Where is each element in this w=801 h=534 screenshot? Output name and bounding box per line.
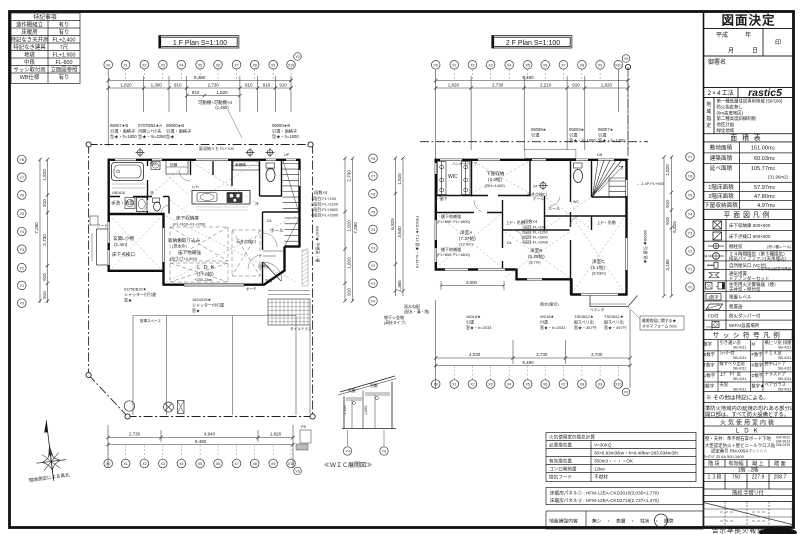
svg-text:(FL+650~FL+1800): (FL+650~FL+1800) [437,253,471,257]
1F main toilet [266,163,275,168]
svg-text:駐車スペース: 駐車スペース [140,318,162,323]
svg-text:準防火地域内の延焼の恐れある部分の: 準防火地域内の延焼の恐れある部分の [705,404,795,412]
svg-text:(31.96m2): (31.96m2) [768,175,789,180]
bathtub [112,163,144,181]
svg-text:Y7: Y7 [371,175,375,179]
svg-text:1,365: 1,365 [397,280,402,292]
legend symbol: smoke alarm [706,283,713,290]
svg-text:立面図参照: 立面図参照 [51,66,79,74]
svg-text:Y7: Y7 [688,156,692,160]
2F plan title box [494,37,571,46]
svg-text:造作棚組立: 造作棚組立 [16,21,44,29]
2F grid bubbles bottom [431,380,440,389]
svg-text:910: 910 [572,83,580,88]
svg-text:FL+2,400: FL+2,400 [53,38,76,44]
svg-text:1階床面積: 1階床面積 [708,183,734,191]
svg-text:タイルテラス: タイルテラス [290,326,312,331]
svg-text:06008★ 引違 窓★: 06008★ 引違 窓★ [643,230,649,263]
svg-text:年: 年 [745,31,751,39]
svg-text:ｷｯﾁﾝ: ｷｯﾁﾝ [192,184,199,189]
svg-text:1,300: 1,300 [151,83,163,88]
WIC elevation sketch [338,376,396,429]
svg-text:0375DB20★: 0375DB20★ [124,287,147,292]
svg-text:Y3: Y3 [20,248,24,252]
svg-text:階段:手摺リ付: 階段:手摺リ付 [732,489,763,496]
svg-text:UB1616: UB1616 [112,191,125,195]
1F interior walls [108,159,300,284]
svg-text:型★・h=1800: 型★・h=1800 [110,133,137,139]
svg-text:FL+1,900: FL+1,900 [53,53,76,59]
svg-text:X6: X6 [216,63,220,67]
svg-text:X8: X8 [252,462,256,466]
1F grid bubbles top [104,60,113,69]
svg-text:型★・m=2250: 型★・m=2250 [138,133,166,139]
understairs hall treads [285,218,300,247]
svg-text:TS03611★: TS03611★ [574,314,594,319]
svg-text:2,730: 2,730 [591,352,603,357]
svg-text:X5: X5 [198,462,202,466]
svg-text:1,820: 1,820 [216,90,228,95]
logo row 2x4 / rastic5 [737,88,739,98]
svg-text:玄関: 玄関 [265,278,273,283]
svg-text:(1,480): (1,480) [215,105,229,110]
svg-text:06000★B: 06000★B [166,123,184,128]
svg-text:Y2: Y2 [20,266,24,270]
svg-text:X1: X1 [123,462,127,466]
svg-text:Y3: Y3 [371,247,375,251]
svg-text:X1: X1 [123,63,127,67]
svg-text:定: 定 [706,122,711,129]
svg-text:2,730: 2,730 [536,352,548,357]
svg-text:X10: X10 [288,63,294,67]
2F room labels [437,170,665,276]
svg-text:9,490: 9,490 [522,360,534,365]
svg-text:床下収納庫 600×600: 床下収納庫 600×600 [729,222,771,229]
svg-text:7,280: 7,280 [353,222,358,234]
svg-text:1,820: 1,820 [601,83,613,88]
ventilation calc table [546,433,696,482]
svg-text:227.9: 227.9 [752,475,765,481]
svg-text:PS: PS [301,425,307,429]
svg-text:F数字: F数字 [752,351,763,358]
svg-text:サッシ符号凡例: サッシ符号凡例 [713,331,784,340]
svg-text:47.80m2: 47.80m2 [754,194,776,200]
svg-text:2,210: 2,210 [540,83,552,88]
svg-text:9,490: 9,490 [522,75,534,80]
svg-text:(高枝タイプ): (高枝タイプ) [384,320,406,325]
svg-text:雨水勾配: 雨水勾配 [404,303,420,309]
svg-text:X1: X1 [452,383,456,387]
svg-text:2,730: 2,730 [208,83,220,88]
kitchen counter [192,191,250,205]
svg-text:910: 910 [263,83,271,88]
1F window openings (white gaps with thin lines) [109,160,300,285]
svg-text:Y6: Y6 [688,175,692,179]
svg-text:ドアアンダーカット: ドアアンダーカット [729,275,769,282]
svg-text:(1.4m): (1.4m) [114,242,128,247]
svg-text:物干シ金物: 物干シ金物 [384,314,404,320]
svg-text:9,490: 9,490 [194,75,206,80]
entrance porch [90,216,108,265]
svg-text:喫置レベル: 喫置レベル [729,294,752,301]
svg-text:(FL+100~FL+200): (FL+100~FL+200) [173,222,206,227]
svg-text:有り: 有り [59,21,70,29]
washstand [137,198,148,212]
svg-text:X6: X6 [543,63,547,67]
svg-text:洋室C: 洋室C [592,258,605,265]
2F grid bubbles right [686,153,695,162]
svg-text:910: 910 [42,273,47,281]
svg-text:06003★: 06003★ [569,127,585,132]
2F stairs [593,160,627,197]
date/stamp box [762,29,764,57]
spec table top-left [11,13,80,84]
svg-text:窓★・367ﾘﾓ: 窓★・367ﾘﾓ [574,324,597,330]
misc dashed clutter kitchen/hall [112,162,258,268]
dimension ticks [38,79,673,446]
2F right dimensions [664,157,672,296]
svg-text:2,730: 2,730 [129,432,141,437]
svg-text:Y0: Y0 [688,286,692,290]
svg-text:910: 910 [665,217,670,225]
svg-text:換気フード: 換気フード [549,473,572,480]
svg-text:縦スベリ出: 縦スベリ出 [574,319,594,325]
2F grid bubbles top [431,61,440,70]
svg-text:UP: UP [284,153,290,157]
svg-text:床暖房パネル② : HFM-12EA-CKD2715(2,7: 床暖房パネル② : HFM-12EA-CKD2715(2,727×1,470) [550,497,659,504]
svg-text:3,640: 3,640 [397,226,402,238]
svg-text:Y7: Y7 [20,176,24,180]
svg-text:4段目:FL+2000: 4段目:FL+2000 [311,212,339,218]
svg-text:上P・吊棚: 上P・吊棚 [597,219,616,225]
svg-text:X9: X9 [271,462,275,466]
svg-text:吊押入: 吊押入 [258,263,270,269]
svg-text:1,820: 1,820 [120,83,132,88]
terrace fence hatch [302,248,308,286]
svg-text:X8: X8 [580,383,584,387]
svg-text:910: 910 [346,288,351,296]
svg-text:1824225★: 1824225★ [192,297,212,302]
svg-text:床下地補強: 床下地補強 [178,249,201,256]
svg-text:Y0: Y0 [20,302,24,306]
svg-text:GM-0319: GM-0319 [776,443,790,447]
svg-text:X7: X7 [561,383,565,387]
svg-text:1,650: 1,650 [364,405,368,415]
1F top dimensions [107,70,293,146]
svg-text:面積表: 面積表 [730,133,765,142]
yard outline [133,316,310,416]
svg-text:緑化地域: 緑化地域 [717,127,735,134]
svg-text:6,825: 6,825 [390,218,395,230]
svg-text:ハンガーパイプ: ハンガーパイプ [452,161,478,166]
svg-text:910: 910 [174,83,182,88]
svg-text:1段目:FL+100: 1段目:FL+100 [311,195,337,201]
svg-text:窓★: 窓★ [192,307,200,313]
svg-text:(吊リ棚レール): (吊リ棚レール) [767,244,791,249]
entrance door arc [263,262,282,281]
svg-text:有効換気量: 有効換気量 [549,457,572,464]
kitchen back counter [233,161,259,170]
svg-text:24: 24 [703,254,708,259]
svg-text:下屋収納面積: 下屋収納面積 [704,201,738,209]
2F window annotations bottom [384,280,627,330]
svg-text:SB-4111: SB-4111 [778,388,791,392]
svg-text:ホール: ホール [270,228,284,233]
2F chain line [420,141,648,143]
svg-text:火気使用室内装: 火気使用室内装 [720,418,776,426]
svg-text:段数×4: 段数×4 [314,189,328,196]
svg-text:151.00m2: 151.00m2 [751,145,776,151]
svg-text:上P・吊棚: 上P・吊棚 [506,219,525,225]
svg-text:ホール: ホール [533,196,544,201]
svg-text:平面図凡例: 平面図凡例 [724,210,773,219]
svg-text:有り: 有り [59,73,70,81]
2F door arcs [435,195,581,241]
svg-text:3段目:FL+3600: 3段目:FL+3600 [311,206,339,212]
svg-text:床暖房: 床暖房 [21,28,37,36]
svg-text:棚柱窓: 棚柱窓 [729,243,743,250]
svg-text:(DH=1400): (DH=1400) [485,183,505,188]
svg-text:Y0: Y0 [371,300,375,304]
svg-text:J数字: J数字 [704,383,715,390]
wood deck grid [268,299,310,325]
svg-text:※寒冷地は結露対策品: ※寒冷地は結露対策品 [757,266,792,271]
svg-text:図面決定: 図面決定 [721,13,775,28]
svg-text:X0: X0 [433,63,437,67]
legend symbol: wifi point [706,324,712,331]
svg-text:特記なき天井高: 特記なき天井高 [11,36,49,44]
svg-text:SB-4111: SB-4111 [778,356,791,360]
svg-text:Y1: Y1 [688,268,692,272]
svg-text:2段目:FL+1150: 2段目:FL+1150 [522,230,548,235]
1F stairs [283,159,300,213]
svg-text:吊棚: 吊棚 [370,383,378,388]
svg-text:750: 750 [732,475,741,481]
svg-text:SB-4111: SB-4111 [778,346,791,350]
svg-text:X8: X8 [580,63,584,67]
svg-text:Y0: Y0 [295,55,299,59]
svg-text:X4: X4 [179,462,183,466]
svg-text:SB-4111: SB-4111 [733,356,746,360]
1F exterior walls [108,159,301,285]
svg-text:型★: 型★ [166,133,175,139]
svg-text:廊下: 廊下 [440,196,448,201]
svg-text:208.7: 208.7 [774,475,787,481]
svg-text:1,820: 1,820 [42,169,47,181]
svg-text:X2: X2 [470,63,474,67]
1F interior door gaps [120,166,263,262]
svg-text:+230-25m: +230-25m [194,277,213,282]
svg-text:T数字: T数字 [704,362,715,369]
svg-text:ホール: ホール [548,206,560,211]
svg-text:X3: X3 [161,63,165,67]
svg-text:06007★ 手摺高・横: 06007★ 手摺高・横 [315,226,321,262]
svg-text:3段目:FL+3600: 3段目:FL+3600 [522,235,548,240]
svg-text:天井点検口: 天井点検口 [236,238,256,244]
svg-text:X9: X9 [598,63,602,67]
svg-text:X5: X5 [525,63,529,67]
svg-text:御署名: 御署名 [708,58,726,66]
svg-text:有効幅: 有効幅 [728,460,743,467]
legend symbol: under-floor storage [713,221,722,229]
svg-text:9,490: 9,490 [195,439,207,444]
svg-text:粗置画: 粗置画 [729,303,743,310]
svg-text:X10: X10 [615,63,621,67]
svg-text:X7: X7 [234,63,238,67]
svg-text:Y6: Y6 [371,192,375,196]
svg-text:4,940: 4,940 [204,432,216,437]
svg-text:排気パイプファン(天吊埋込): 排気パイプファン(天吊埋込) [729,255,786,262]
legend symbol: shelf strip [708,245,724,247]
svg-text:4段目:FL+2000: 4段目:FL+2000 [522,240,548,245]
svg-text:1,150: 1,150 [343,405,347,415]
svg-text:物入: 物入 [150,161,158,166]
balcony note box [640,316,684,330]
svg-text:建築面積: 建築面積 [710,154,733,162]
svg-text:30×0.93m3/kw・h×9.48kw=263.934m: 30×0.93m3/kw・h×9.48kw=263.934m3/h [594,450,678,455]
svg-text:防火ダンパー付: 防火ダンパー付 [729,313,761,320]
svg-text:不燃材: 不燃材 [594,473,608,480]
1F grid bubbles right [369,154,378,163]
svg-text:2 F Plan S=1:100: 2 F Plan S=1:100 [506,40,560,47]
LDK dashed diagonals (ceiling) [166,216,296,282]
svg-text:SB-4111: SB-4111 [733,377,746,381]
svg-text:2,730: 2,730 [492,83,504,88]
svg-text:食器棚: 食器棚 [235,162,246,167]
svg-text:FL-800: FL-800 [55,60,72,66]
svg-text:無シ ・ 表層 ・ 柱状 ・ 鋼管: 無シ ・ 表層 ・ 柱状 ・ 鋼管 [592,518,674,525]
svg-text:X0: X0 [106,63,110,67]
svg-text:(仕上げ+4,000): (仕上げ+4,000) [170,255,198,261]
svg-text:K数字: K数字 [752,362,763,369]
svg-text:W018★: W018★ [540,314,554,319]
svg-text:U数字: U数字 [704,372,716,379]
drain symbol [164,402,174,412]
svg-text:X8: X8 [252,63,256,67]
extra tiny annotations 1F [97,153,312,331]
svg-text:域: 域 [706,108,711,115]
svg-text:天窓: 天窓 [720,381,729,388]
2F bottom dimensions [436,300,630,388]
svg-text:105.77m2: 105.77m2 [751,166,776,172]
svg-text:X9: X9 [598,383,602,387]
svg-text:シャッター付引違: シャッター付引違 [124,291,156,297]
zoning box 地域指定 [713,98,715,134]
entrance step lines [263,251,284,256]
floor heating panel table [546,488,703,505]
svg-text:敷地面積: 敷地面積 [710,143,733,151]
gutter box right [300,430,311,443]
svg-text:壁・天井：準不燃石膏ボード下地: 壁・天井：準不燃石膏ボード下地 [705,435,771,442]
svg-text:Y1: Y1 [371,282,375,286]
svg-text:階 段: 階 段 [708,460,719,467]
interior door arcs [139,170,263,269]
legend symbol: access hatch [713,232,722,240]
svg-text:数字: 数字 [704,341,713,348]
svg-text:7尺: 7尺 [60,44,69,51]
svg-text:SB-4111: SB-4111 [778,377,791,381]
svg-text:Y4: Y4 [20,230,24,234]
svg-text:シャッター付引違: シャッター付引違 [192,302,224,308]
svg-text:FE2013★ T13 窓★・h=41+9: FE2013★ T13 窓★・h=41+9 [415,216,421,269]
1F bottom dimensions [108,425,293,468]
svg-text:ＦＩＸ窓: ＦＩＸ窓 [765,350,783,356]
svg-text:床下点検口 600×600: 床下点検口 600×600 [729,233,771,240]
svg-text:指: 指 [706,115,711,122]
svg-text:Ｌ Ｄ Ｋ: Ｌ Ｄ Ｋ [196,265,215,271]
legend rows [704,219,793,329]
svg-text:雨水(縦引): 雨水(縦引) [540,301,559,307]
svg-text:ベランダ: ベランダ [590,307,605,312]
svg-text:月: 月 [728,48,734,55]
stove [227,193,242,203]
manhole circle [124,401,134,411]
svg-text:Y5: Y5 [688,194,692,198]
svg-text:WIFAI設置場所: WIFAI設置場所 [729,322,760,329]
2F room dashed ceiling lines [438,162,624,292]
svg-text:X7: X7 [234,462,238,466]
svg-text:Y4: Y4 [688,213,692,217]
sidebar panel [703,13,705,527]
svg-text:24: 24 [533,185,537,189]
floor heating panels LDK [170,227,260,282]
svg-text:X3: X3 [488,383,492,387]
svg-text:SB-4111: SB-4111 [733,388,746,392]
svg-text:910: 910 [279,83,287,88]
svg-text:床下収納庫: 床下収納庫 [176,215,199,222]
svg-text:06000★B: 06000★B [272,123,290,128]
site boundary 1F (chain line) [89,145,313,417]
svg-text:X7: X7 [561,63,565,67]
svg-text:縦スベリ出: 縦スベリ出 [604,319,624,325]
svg-text:X6: X6 [543,383,547,387]
ground reinforcement table [546,511,703,529]
svg-text:1,920: 1,920 [346,220,351,232]
svg-text:地袋: 地袋 [24,51,35,59]
svg-text:2,730: 2,730 [346,170,351,182]
compass north arrow [32,419,69,483]
svg-text:SB-4111: SB-4111 [733,346,746,350]
svg-text:1,820: 1,820 [346,257,351,269]
svg-text:冷: 冷 [255,201,259,206]
washer pan [125,198,135,209]
survey pegs [136,148,145,157]
svg-text:Y4: Y4 [371,228,375,232]
svg-text:最美物混に関する★: 最美物混に関する★ [642,318,676,323]
svg-text:← 2.4P FL+900: ← 2.4P FL+900 [636,181,665,186]
svg-text:Y8: Y8 [20,158,24,162]
svg-text:(12.0m): (12.0m) [459,242,473,247]
svg-text:06007★B: 06007★B [110,123,128,128]
2F interior door gaps [474,196,571,262]
svg-text:X4: X4 [179,63,183,67]
2F interior walls [435,159,626,295]
1F toilet (powder) [153,198,160,203]
svg-text:X1: X1 [452,63,456,67]
svg-text:Y6: Y6 [382,450,386,454]
svg-text:1段目:FL+100: 1段目:FL+100 [522,225,546,230]
stairs table [704,460,793,502]
svg-text:rastic5: rastic5 [748,87,782,99]
svg-text:サッシ取付高: サッシ取付高 [13,66,46,74]
2F balcony [590,296,638,307]
svg-text:3,185: 3,185 [665,259,670,271]
svg-text:窓★: 窓★ [124,297,132,303]
LDK big window (shutter) [184,284,244,287]
svg-text:16018★: 16018★ [466,314,481,319]
svg-text:2段目:FL+1150: 2段目:FL+1150 [311,201,339,207]
svg-text:中段: 中段 [24,58,35,66]
